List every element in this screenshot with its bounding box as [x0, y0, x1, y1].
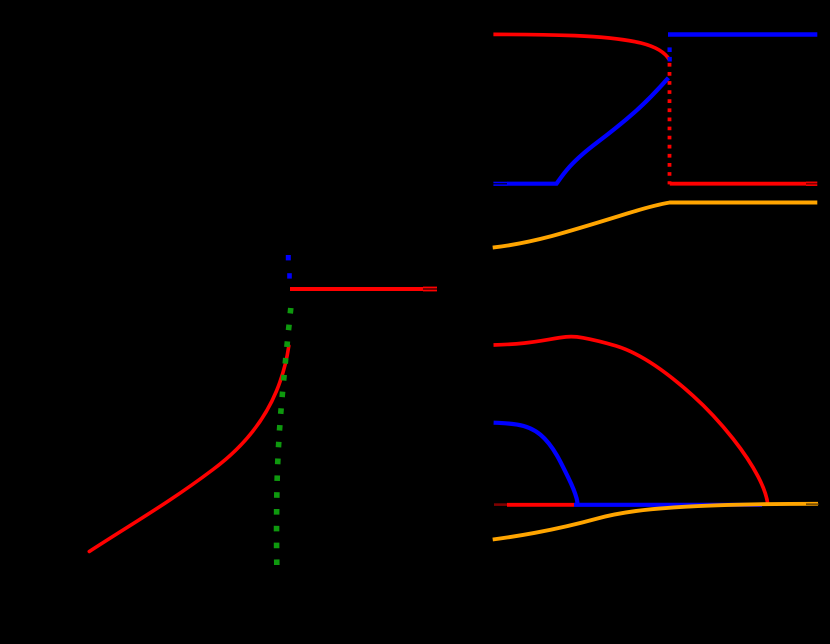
left plot: unstable branch (green dotted) [277, 308, 291, 565]
bottom-right plot: decaying mode curve (red solid) [494, 337, 768, 505]
left plot: upper branch dot 1 (blue dotted) [286, 255, 291, 260]
top-right plot: red flat end upper edge (red thin) [806, 181, 817, 183]
left plot: stable branch curve (red solid) [89, 346, 288, 552]
top-right plot: red flat end lower edge (red thin) [806, 184, 817, 186]
top-right plot: upper eigenvalue before EP (red solid) [493, 34, 669, 60]
top-right plot: lower eigenvalue after EP (red solid flat) [670, 182, 807, 186]
left plot: flat branch line (red solid horizontal) [290, 287, 423, 291]
bottom-right plot: growing mode curve (blue solid) [494, 423, 578, 504]
top-right plot: EP vertical connector (red dotted) [668, 63, 672, 184]
left plot: flat branch end lower edge (red thin) [423, 290, 437, 292]
top-right plot: gain parameter curve (orange solid) [493, 203, 818, 248]
top-right plot: lower eigenvalue flat start hollow lower edge (blue thin) [493, 184, 507, 186]
top-right plot: red flat end core (dark red alpha line) [806, 183, 817, 185]
top-right plot: lower eigenvalue flat start hollow upper edge (blue thin) [493, 182, 507, 184]
top-right plot: EP connector dot 2 (blue dotted) [668, 57, 672, 62]
top-right plot: lower eigenvalue before EP (blue solid) [507, 78, 668, 184]
left plot: upper branch dot 2 (blue dotted) [287, 273, 292, 278]
bottom-right plot: zero line blue segment (blue solid) [574, 503, 762, 507]
bottom-right plot: zero line red segment (red solid) [507, 503, 574, 507]
bottom-right plot: zero line right end core (dark alpha segment) [806, 503, 819, 505]
top-right plot: EP connector dot 1 (blue dotted) [668, 47, 672, 52]
left plot: flat branch end upper edge (red thin) [423, 286, 437, 288]
bottom-right plot: loss parameter curve (orange solid) [493, 504, 818, 540]
left plot: flat branch end core (dark red alpha line) [423, 288, 437, 290]
bottom-right plot: zero line left segment (dark red alpha line) [494, 503, 508, 506]
top-right plot: upper eigenvalue after EP (blue solid flat) [668, 32, 817, 37]
